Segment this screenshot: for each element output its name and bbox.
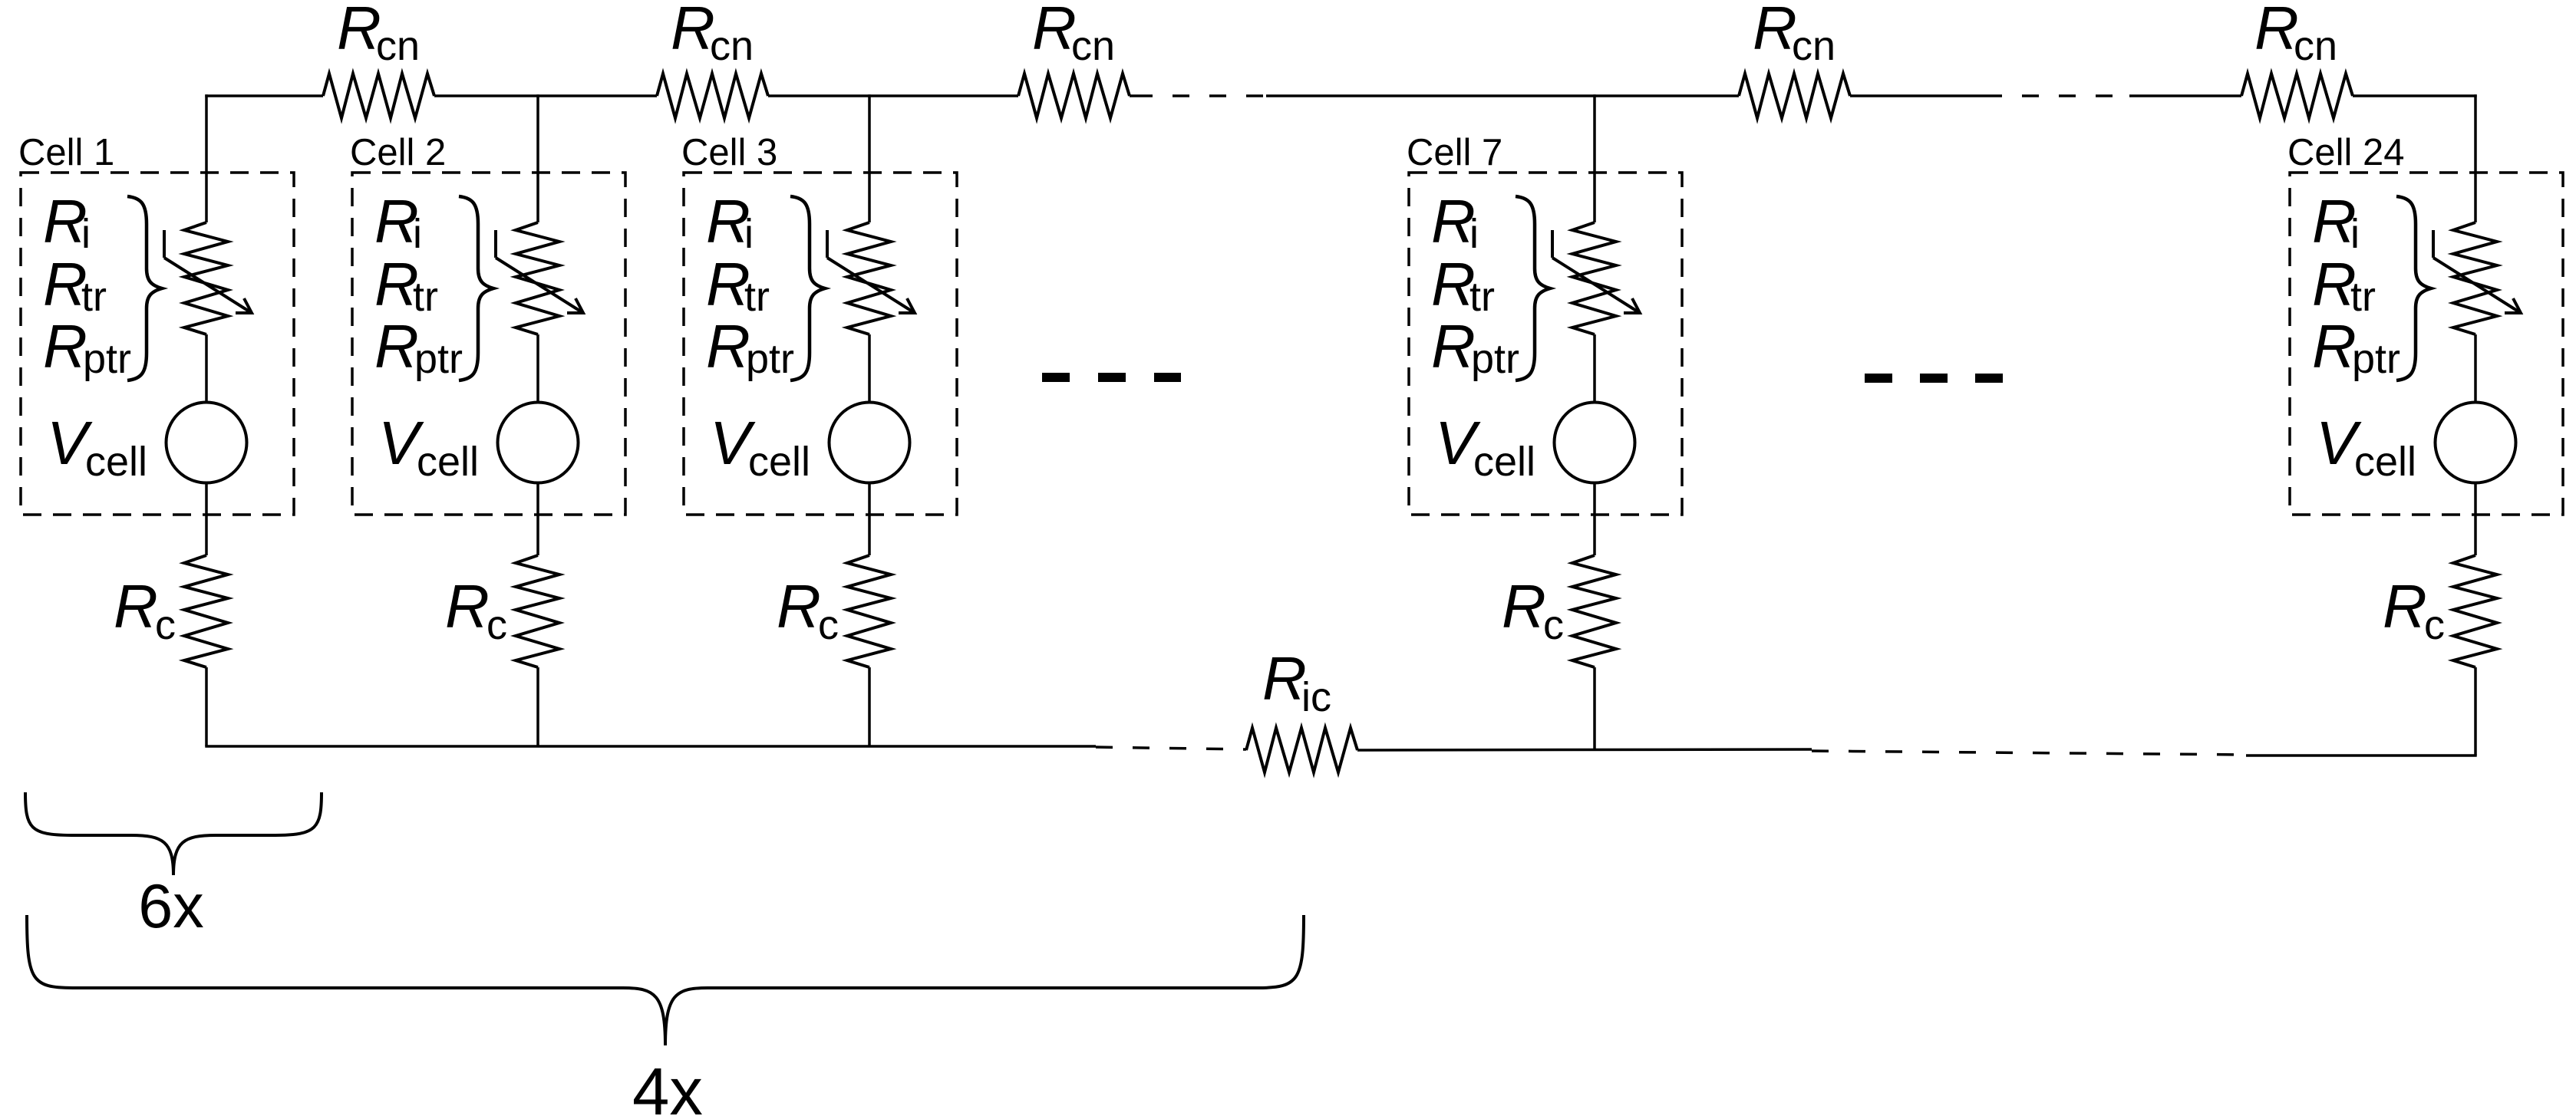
svg-text:6x: 6x xyxy=(138,872,204,941)
svg-text:c: c xyxy=(2424,602,2445,648)
svg-text:cell: cell xyxy=(85,439,147,485)
svg-text:c: c xyxy=(487,602,507,648)
svg-text:c: c xyxy=(818,602,839,648)
svg-text:Cell 2: Cell 2 xyxy=(350,132,446,173)
svg-text:cn: cn xyxy=(1071,23,1115,69)
svg-text:Cell 1: Cell 1 xyxy=(18,132,114,173)
svg-text:cell: cell xyxy=(2354,439,2416,485)
svg-text:cn: cn xyxy=(376,23,420,69)
svg-text:ptr: ptr xyxy=(2352,336,2400,382)
svg-text:R: R xyxy=(2383,572,2427,640)
svg-text:R: R xyxy=(777,572,821,640)
svg-text:R: R xyxy=(706,312,750,380)
svg-text:c: c xyxy=(1543,602,1564,648)
svg-text:R: R xyxy=(1753,0,1797,62)
svg-text:4x: 4x xyxy=(632,1055,703,1116)
svg-text:Cell 24: Cell 24 xyxy=(2287,132,2405,173)
svg-text:R: R xyxy=(1262,644,1307,713)
svg-text:R: R xyxy=(1431,312,1476,380)
svg-text:R: R xyxy=(445,572,490,640)
svg-text:R: R xyxy=(671,0,715,62)
svg-text:cell: cell xyxy=(748,439,810,485)
svg-text:cn: cn xyxy=(2294,23,2337,69)
svg-text:R: R xyxy=(114,572,158,640)
svg-text:Cell 3: Cell 3 xyxy=(681,132,777,173)
svg-text:R: R xyxy=(43,312,87,380)
svg-text:ic: ic xyxy=(1301,674,1331,720)
svg-text:ptr: ptr xyxy=(746,336,794,382)
svg-text:R: R xyxy=(1032,0,1077,62)
svg-text:cell: cell xyxy=(1473,439,1535,485)
svg-text:ptr: ptr xyxy=(83,336,131,382)
svg-text:R: R xyxy=(2312,312,2357,380)
svg-text:c: c xyxy=(155,602,176,648)
svg-text:cn: cn xyxy=(1792,23,1836,69)
svg-text:ptr: ptr xyxy=(414,336,463,382)
svg-text:R: R xyxy=(337,0,381,62)
svg-text:R: R xyxy=(2254,0,2299,62)
svg-text:ptr: ptr xyxy=(1471,336,1519,382)
svg-text:R: R xyxy=(1502,572,1546,640)
svg-text:Cell 7: Cell 7 xyxy=(1407,132,1502,173)
svg-text:R: R xyxy=(374,312,419,380)
svg-text:cn: cn xyxy=(710,23,754,69)
svg-text:cell: cell xyxy=(417,439,479,485)
